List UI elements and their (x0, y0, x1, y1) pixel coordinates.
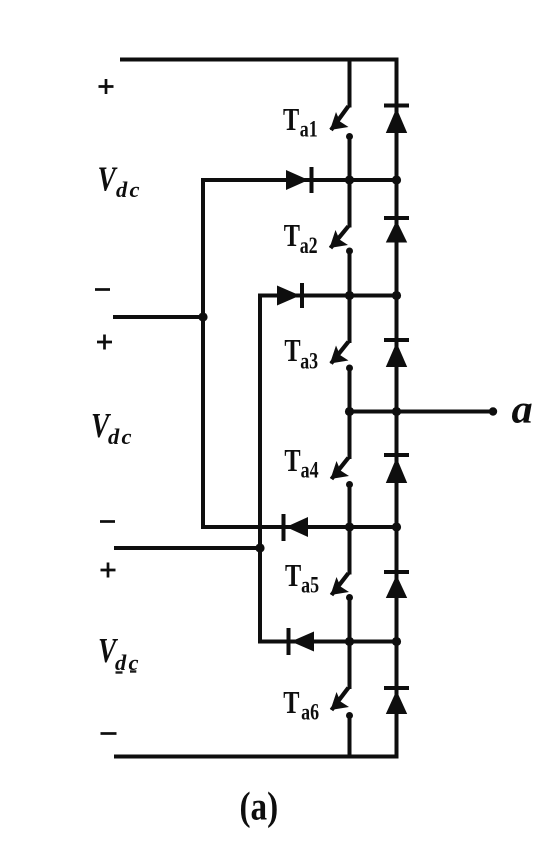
svg-text:T: T (283, 103, 299, 138)
svg-text:a6: a6 (301, 701, 319, 726)
junction dot clamp line 3 / switch chain (345, 522, 354, 531)
wire V_dc2/V_dc3 link (node n1 horizontal) (116, 546, 260, 550)
minus sign source 2 (100, 520, 115, 523)
svg-text:a5: a5 (301, 574, 319, 599)
junction dot node n2 (198, 312, 207, 321)
svg-text:T: T (285, 559, 301, 594)
label T_a6 (283, 686, 319, 725)
svg-text:T: T (284, 219, 300, 254)
transistor T_a5 (331, 527, 354, 642)
label node a (512, 387, 533, 432)
junction dot clamp line 3 / diode rail (392, 522, 401, 531)
wire clamp bus vertical (node n2) (201, 180, 205, 527)
label V_dc source 2 (91, 406, 134, 449)
wire bottom DC rail (116, 755, 397, 759)
svg-text:(a): (a) (240, 784, 279, 829)
label V_dc source 3 (98, 631, 141, 675)
label T_a4 (284, 444, 318, 483)
wire clamp line 4 (Ta5/Ta6 junction) (260, 640, 397, 644)
transistor T_a1 (330, 60, 353, 181)
junction dot clamp line 1 / diode rail (392, 175, 401, 184)
junction dot node n1 (255, 543, 264, 552)
wire clamp line 1 (Ta1/Ta2 junction) (203, 178, 397, 182)
svg-text:a2: a2 (300, 234, 318, 259)
minus sign source 3 (101, 732, 117, 735)
label T_a5 (285, 559, 319, 598)
diode D4 antiparallel (384, 453, 409, 483)
diode D5 antiparallel (384, 570, 409, 598)
terminal dot node a (489, 407, 497, 415)
svg-text:T: T (284, 444, 300, 479)
minus sign source 1 (95, 288, 110, 291)
plus sign source 1 (99, 79, 114, 94)
wire top DC rail (122, 58, 397, 62)
svg-text:T: T (283, 686, 299, 721)
svg-text:T: T (284, 334, 300, 369)
svg-text:dc: dc (116, 177, 142, 202)
label V_dc source 1 (98, 159, 142, 202)
junction dot output line / diode rail (392, 407, 401, 416)
svg-text:a3: a3 (300, 349, 318, 374)
clamp diode Dc1 (right-pointing, line 1) (286, 167, 314, 193)
plus sign source 2 (97, 335, 112, 350)
label T_a3 (284, 334, 318, 374)
plus sign source 3 (101, 563, 116, 578)
wire V_dc1/V_dc2 link (node n2 horizontal) (115, 315, 203, 319)
label T_a2 (284, 219, 318, 259)
svg-text:a1: a1 (300, 118, 318, 143)
svg-text:dc: dc (115, 650, 141, 675)
wire clamp bus vertical (node n1) (258, 296, 262, 642)
junction dot clamp line 4 / diode rail (392, 637, 401, 646)
svg-text:a: a (512, 387, 533, 432)
junction dot clamp line 1 / switch chain (345, 175, 354, 184)
svg-text:dc: dc (108, 424, 134, 449)
transistor T_a6 (331, 642, 354, 757)
diode D2 antiparallel (384, 216, 409, 243)
transistor T_a4 (331, 412, 354, 528)
diode D6 antiparallel (384, 686, 409, 714)
caption (a) (240, 784, 279, 829)
junction dot clamp line 2 / diode rail (392, 291, 401, 300)
diode D1 antiparallel (384, 104, 409, 134)
label T_a1 (283, 103, 318, 142)
svg-text:a4: a4 (301, 459, 319, 484)
junction dot clamp line 2 / switch chain (345, 291, 354, 300)
transistor T_a3 (330, 296, 353, 412)
clamp diode Dc3 (left-pointing, line 3) (282, 514, 309, 541)
wire clamp line 2 (Ta2/Ta3 junction) (260, 294, 397, 298)
scan artifact dashes under V_dc source 3 (116, 672, 137, 673)
junction dot clamp line 4 / switch chain (345, 637, 354, 646)
wire right diode rail (395, 60, 399, 757)
transistor T_a2 (330, 180, 354, 296)
wire clamp line 3 (Ta4/Ta5 junction) (203, 525, 397, 529)
clamp diode Dc2 (right-pointing, line 2) (277, 283, 304, 308)
junction dot output line / switch chain (345, 407, 354, 416)
diode D3 antiparallel (384, 338, 409, 367)
wire output line node a (350, 410, 494, 414)
clamp diode Dc4 (left-pointing, line 4) (287, 628, 315, 655)
